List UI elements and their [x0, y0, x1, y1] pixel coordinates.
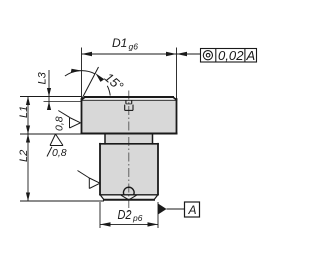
- svg-text:A: A: [188, 203, 197, 217]
- svg-text:0,02: 0,02: [218, 48, 244, 63]
- svg-text:L2: L2: [18, 150, 30, 162]
- svg-text:A: A: [246, 48, 256, 63]
- svg-text:L3: L3: [37, 71, 49, 84]
- svg-text:0,8: 0,8: [54, 116, 66, 131]
- svg-text:0,8: 0,8: [52, 147, 67, 159]
- svg-text:D2: D2: [118, 207, 133, 222]
- svg-text:p6: p6: [132, 213, 143, 223]
- svg-text:L1: L1: [18, 106, 30, 118]
- svg-text:D1: D1: [112, 36, 127, 50]
- svg-text:g6: g6: [129, 42, 139, 52]
